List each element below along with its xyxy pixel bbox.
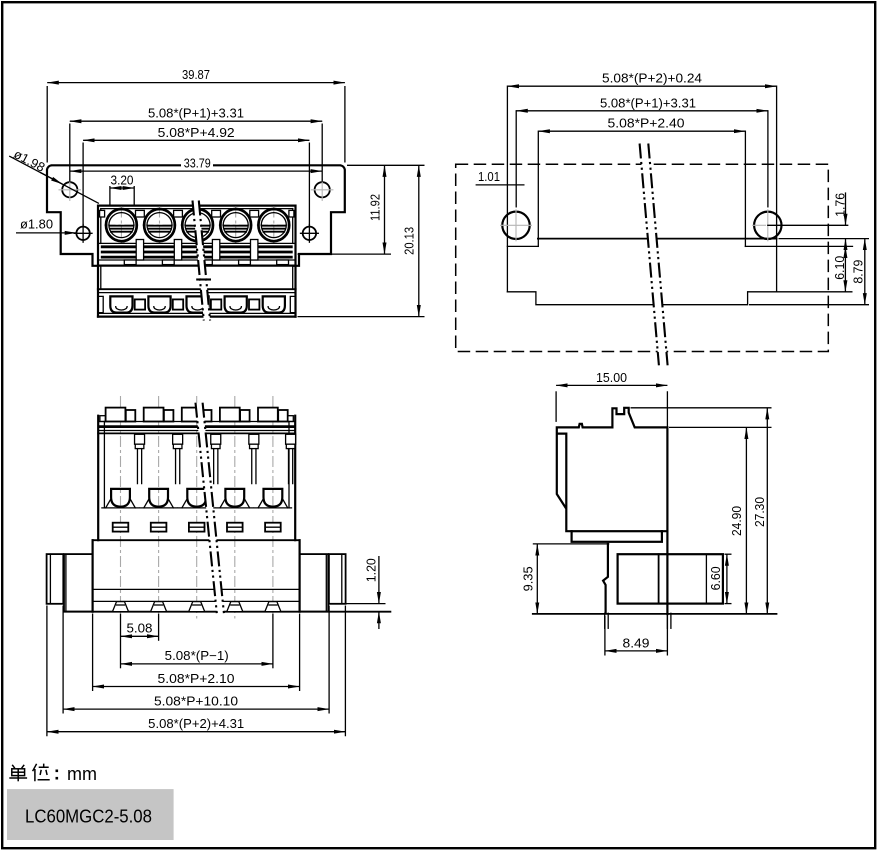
dim 5.08*(P+1)+3.31 extension lines [69,124,71,182]
front view: mounting hole right (Ø1.98) [315,182,330,197]
svg-text:5.08*(P+2)+4.31: 5.08*(P+2)+4.31 [148,716,244,731]
rear view: middle section [93,539,300,541]
svg-text:5.08: 5.08 [127,621,153,636]
dim 20.13 extension line [298,316,425,318]
dim 5.08*P+2.40 [538,130,745,132]
front view: small hole right (Ø1.80) [303,227,316,240]
side view: lower body left edge [603,544,608,613]
front view: small hole left (Ø1.80) [76,227,89,240]
rear view: left ear [47,554,64,604]
top view: mounting circle left [502,212,529,239]
rear view: funnels [102,507,139,509]
dim 24.90 extension [669,426,772,428]
front view: break dash mark [196,278,211,280]
rear view: contact collars and pins [135,434,145,444]
dim 5.08*P+4.92 [83,139,309,141]
dim 5.08*(P+1)+3.31 [70,120,322,122]
top view: break line 2 [648,144,667,366]
svg-text:33.79: 33.79 [184,156,211,171]
dim 1.76 [845,192,847,225]
dim 8.49 extension [604,616,606,656]
dim 6.60 [726,554,728,603]
screw 3 [197,207,199,244]
dim 5.08*P+2.10 [93,686,300,688]
dim 9.35 [536,544,538,614]
front view: break-out blank zone [193,201,211,321]
top view: break line 1 [640,144,659,366]
top view: left ledge under circle [507,245,538,247]
front view: clamp band [98,242,296,244]
top view: lower step profile [507,292,747,305]
rear view: break line 1 [196,403,217,613]
dim 6.10 [844,246,846,291]
front view: squares between arches [135,299,145,309]
svg-text:15.00: 15.00 [596,370,627,385]
dim 27.30 [766,408,768,614]
svg-text:mm: mm [67,764,97,784]
svg-text:27.30: 27.30 [752,497,767,527]
svg-text:5.08*(P+2)+0.24: 5.08*(P+2)+0.24 [602,71,702,86]
screw 4 [235,207,237,244]
svg-text:5.08*(P+1)+3.31: 5.08*(P+1)+3.31 [600,95,696,110]
dim 3.20 [110,187,134,189]
rear view: right ear [329,554,346,604]
top view: right ledge under circle / 6.10 extension [745,245,852,247]
dim 39.87 extension lines [46,86,48,163]
top view: left hole extension [515,111,517,207]
leader Ø1.80 [16,232,76,234]
svg-text:LC60MGC2-5.08: LC60MGC2-5.08 [25,807,152,827]
svg-text:1.76: 1.76 [832,193,847,217]
svg-text:5.08*P+2.40: 5.08*P+2.40 [608,116,685,131]
svg-text:8.49: 8.49 [623,635,650,650]
side view: body outline [557,408,668,614]
dim 8.79 extension [749,304,869,306]
svg-text:3.20: 3.20 [111,173,134,188]
top view: circle centre extension to 1.76 [768,224,848,226]
dim 5.08*(P-1) [121,663,273,665]
svg-text:39.87: 39.87 [182,67,210,82]
top view: left notch vertical [537,131,539,246]
dim 24.90 [745,427,747,614]
top view: right edge / extension [776,86,778,292]
svg-text:11.92: 11.92 [367,194,382,221]
dim 5.08 [121,635,159,637]
side view: solder pins below baseline [604,613,606,628]
dim 6.10 extension [748,291,853,293]
dim 11.92 [384,165,386,254]
front view: flange plate outline [47,165,345,265]
dim 39.87 [47,82,345,84]
screw 2 [159,207,161,244]
svg-text:5.08*(P−1): 5.08*(P−1) [165,648,229,663]
rear view: pitch centrelines [120,396,122,619]
front view: body outline [98,206,296,266]
rear view: top bumps row [106,408,126,422]
top view: bar profile [538,238,777,240]
dim 5.08*P+10.10 [63,708,329,710]
rear view: break-out blank zone [196,403,224,613]
svg-text:5.08*P+4.92: 5.08*P+4.92 [158,125,235,140]
screw 1 [120,207,122,244]
rear view: solder pins [113,602,129,612]
svg-text:8.79: 8.79 [850,260,865,284]
front view: break line 2 [199,201,210,321]
svg-text:24.90: 24.90 [729,506,744,536]
svg-text:ø1.80: ø1.80 [20,217,53,232]
dim 8.49 [605,650,668,652]
top view: break-out blank zone [640,144,668,366]
dim 1.20 extension [346,603,386,605]
svg-text:5.08*P+10.10: 5.08*P+10.10 [154,693,238,708]
dim 3.20 extension lines [109,181,111,206]
top view: mounting circle right [754,212,781,239]
front view: break line 1 [193,201,204,321]
rear view: break line 2 [203,403,224,613]
front view: band posts [136,240,143,261]
dim 27.30 extension [631,407,772,409]
dim 11.92 extension lines [347,164,425,166]
front view: mounting hole left (Ø1.98) [62,182,77,197]
front view: lower section [98,288,296,290]
rear view: outer walls [97,416,99,541]
rear view: lower slots [113,523,129,532]
dim 20.13 [418,165,420,316]
dim 15.00 [556,384,667,386]
screw 5 [273,207,275,244]
svg-text:20.13: 20.13 [402,227,417,255]
dim 5.08*(P+1)+3.31 top view [516,110,768,112]
svg-text:5.08*P+2.10: 5.08*P+2.10 [158,671,235,686]
rear dims extension lines [120,614,122,669]
dim 1.20 [378,556,380,604]
top view: left edge / extension [506,86,508,292]
front view: wire-entry arches [110,296,132,312]
rear view: PCB baseline [64,611,391,613]
dim 33.79 [70,170,322,172]
svg-text:9.35: 9.35 [520,566,535,591]
leader Ø1.98 [9,156,99,203]
top view: phantom PCB dashed rectangle [456,164,829,351]
dim 5.08*(P+2)+0.24 [507,85,776,87]
top view: right notch vertical [744,131,746,246]
svg-text:6.10: 6.10 [832,256,847,280]
side view: PCB baseline [533,613,777,615]
dim 5.08*P+4.92 extension lines [82,143,84,226]
dim 8.79 [864,239,866,305]
dim 1.01 [476,184,525,186]
front view: lower connection walls [97,266,99,290]
svg-text:5.08*(P+1)+3.31: 5.08*(P+1)+3.31 [148,106,244,121]
dim 1.76 / 8.79 extension [779,238,870,240]
front view: band step notches [124,260,136,265]
rear view: top band [98,421,295,423]
part number label box [7,789,174,840]
side view: 15.00 extension lines [555,391,557,422]
units note 单位 [9,764,49,782]
front view: vent slots row [136,210,145,217]
side view: 9.35 extension line [533,543,610,545]
dim 5.08*(P+2)+4.31 [47,731,346,733]
svg-text:1.01: 1.01 [478,169,500,184]
top view: right hole extension [767,111,769,207]
side view: flange plate [572,531,662,542]
dim 6.60 extensions [725,553,732,555]
svg-text:6.60: 6.60 [708,566,723,590]
side view: pin block [618,554,723,603]
svg-text:1.20: 1.20 [364,558,379,582]
